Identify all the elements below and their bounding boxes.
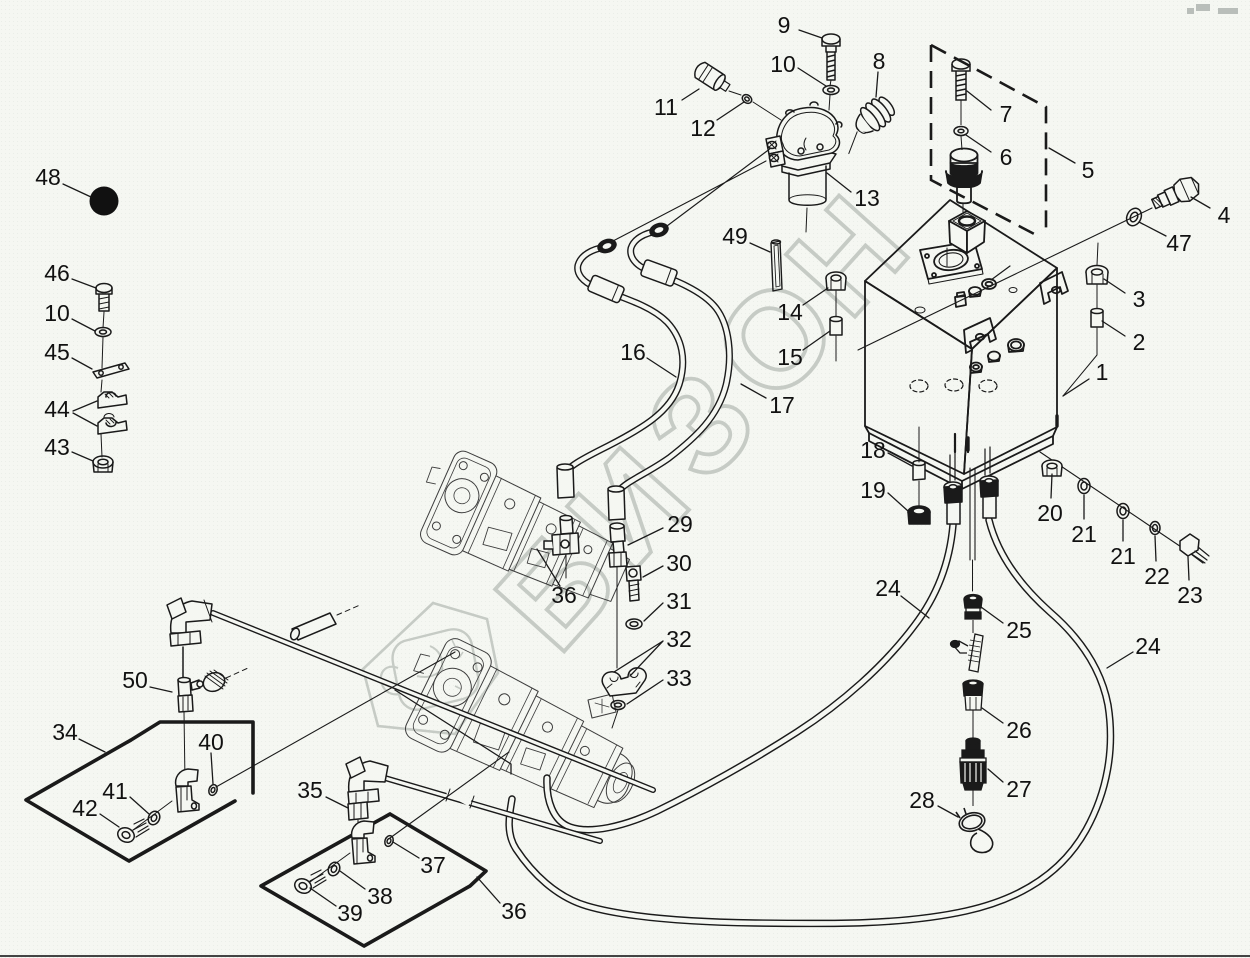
breather cap assembly (946, 149, 982, 213)
hose 17 ferrule (640, 259, 678, 287)
leader 25 (981, 607, 1003, 623)
svg-text:5: 5 (1082, 157, 1095, 183)
svg-text:9: 9 (778, 12, 791, 38)
leader 16 (647, 358, 676, 377)
ring 12 (741, 93, 754, 105)
svg-text:28: 28 (909, 787, 935, 813)
leader 31 (644, 603, 663, 621)
watermark group (363, 4, 1238, 734)
axis line 11-12 to filter (729, 91, 781, 120)
plug 48 (90, 187, 119, 216)
svg-text:37: 37 (420, 852, 446, 878)
leader 36a (537, 549, 560, 586)
svg-text:48: 48 (35, 164, 61, 190)
leader 18 (888, 453, 912, 466)
svg-text:20: 20 (1037, 500, 1063, 526)
leader 17 (741, 384, 766, 398)
sleeve pipe (289, 605, 360, 641)
svg-text:18: 18 (860, 437, 886, 463)
leader 24a (901, 596, 929, 618)
strip 45 (93, 363, 129, 378)
part 27 coupler (960, 738, 986, 806)
leader 42 (100, 814, 119, 827)
ring 33 (611, 701, 625, 710)
tank top small fittings (915, 266, 1017, 313)
tank bottom lip (865, 426, 1057, 481)
svg-text:31: 31 (666, 588, 692, 614)
leader 29 (628, 528, 663, 545)
knurled plug (200, 668, 248, 695)
fitting 50 (178, 647, 203, 782)
hose 17 (619, 231, 729, 491)
svg-text:11: 11 (654, 94, 678, 120)
leader 46 (72, 279, 96, 288)
filter left ports (766, 136, 785, 167)
pump port flange (588, 694, 616, 718)
nut 14 (826, 272, 846, 318)
tank front dashed holes (910, 379, 997, 392)
svg-text:23: 23 (1177, 582, 1203, 608)
leader 2 (1102, 321, 1125, 336)
svg-text:44: 44 (44, 396, 70, 422)
washer 41 (146, 809, 162, 826)
leader 32 (614, 641, 663, 676)
part 26 valve (951, 634, 984, 740)
box36 axis (390, 752, 509, 838)
box36 lower axis (310, 853, 350, 882)
nut 35 (348, 802, 368, 833)
tank foot tabs (968, 416, 1057, 450)
leader 13 (827, 173, 851, 192)
leader 27 (988, 769, 1003, 782)
sensor 11 (692, 60, 733, 95)
svg-text:16: 16 (620, 339, 646, 365)
nut 20 (1042, 460, 1062, 476)
washer 47 (1124, 206, 1144, 228)
svg-text:42: 42 (72, 795, 98, 821)
drain tube line under tank (970, 468, 975, 560)
tank filler flange plate (920, 241, 983, 284)
elbow bracket 34 (176, 769, 199, 812)
svg-text:25: 25 (1006, 617, 1032, 643)
leader 10a (72, 319, 95, 331)
hose 17 elbow ring nut (648, 221, 670, 239)
bolt 39 (292, 870, 326, 896)
leader 35 (326, 797, 348, 808)
leader 19 (888, 493, 908, 511)
leader 24b (1107, 652, 1133, 668)
leader 21c (1122, 520, 1124, 541)
svg-text:50: 50 (122, 667, 148, 693)
leader 22 (1155, 536, 1156, 561)
svg-text:49: 49 (722, 223, 748, 249)
leader 41 (130, 797, 149, 814)
svg-text:14: 14 (777, 299, 803, 325)
ring 37 (383, 834, 394, 847)
bolt 23 (1180, 534, 1209, 563)
bolt 7 (952, 59, 970, 125)
svg-text:17: 17 (769, 392, 795, 418)
hose 24 left (547, 525, 953, 830)
plug 8 (831, 92, 899, 154)
filter canister (789, 166, 826, 205)
leader 30 (643, 566, 663, 577)
svg-text:35: 35 (297, 777, 323, 803)
svg-text:36: 36 (501, 898, 527, 924)
watermark corner mark (1187, 4, 1238, 14)
tank foot (955, 434, 968, 452)
bolt 9 (822, 34, 840, 86)
svg-text:34: 34 (52, 719, 78, 745)
leader 37 (393, 842, 419, 858)
axis line 20-23 (1040, 452, 1205, 563)
svg-text:24: 24 (875, 575, 901, 601)
ring 40 (207, 783, 218, 796)
svg-text:10: 10 (44, 300, 70, 326)
nut 3 (1086, 243, 1108, 310)
washer 10b (823, 86, 839, 95)
leader 20 (1051, 474, 1052, 498)
leader 43 (72, 452, 93, 461)
leader 23 (1188, 557, 1189, 580)
svg-text:36: 36 (551, 582, 577, 608)
leader 21a (1083, 495, 1085, 519)
svg-text:45: 45 (44, 339, 70, 365)
svg-text:29: 29 (667, 511, 693, 537)
washer 10a (95, 328, 111, 337)
suction tube 1 (213, 613, 653, 790)
leader 1 (1063, 379, 1089, 396)
svg-text:40: 40 (198, 729, 224, 755)
svg-text:38: 38 (367, 883, 393, 909)
leader 50 (150, 687, 172, 692)
svg-text:4: 4 (1218, 202, 1231, 228)
leader 10b (798, 68, 826, 86)
axis line left column (101, 312, 104, 457)
box 36 (261, 814, 486, 946)
leader 12 (717, 102, 744, 120)
svg-text:47: 47 (1166, 230, 1192, 256)
svg-text:15: 15 (777, 344, 803, 370)
elbow bracket 36 (352, 821, 375, 864)
svg-text:41: 41 (102, 778, 128, 804)
svg-text:10: 10 (770, 51, 796, 77)
elbow 50 top (167, 598, 212, 646)
hose 24 right tank fitting (980, 476, 998, 518)
svg-text:3: 3 (1133, 286, 1146, 312)
tank bracket left (964, 318, 996, 353)
leader 47 (1139, 222, 1166, 236)
leader 45 (72, 358, 92, 369)
leader 5 (1049, 148, 1075, 163)
hose 16 ferrule (587, 275, 625, 304)
axis line for 4,47 (858, 208, 1152, 350)
hose 16 (563, 247, 683, 476)
box34 lower axis (133, 801, 172, 830)
leader 14 (803, 288, 828, 305)
hose 24 right (509, 520, 1110, 924)
fitting 4 (1149, 173, 1204, 215)
leader 15 (803, 331, 830, 350)
washer 21c (1117, 504, 1129, 519)
svg-text:43: 43 (44, 434, 70, 460)
tank bracket right (1040, 272, 1068, 304)
leader 7 (967, 91, 991, 110)
nut 19 (908, 506, 930, 524)
leader 36b (477, 877, 500, 903)
svg-text:12: 12 (690, 115, 716, 141)
bottom border line (0, 955, 1250, 957)
leader 26 (982, 708, 1003, 723)
svg-text:22: 22 (1144, 563, 1170, 589)
tank under-hose stubs (950, 447, 990, 482)
leader 3 (1104, 279, 1125, 293)
svg-text:30: 30 (666, 550, 692, 576)
leader 48 (63, 184, 91, 197)
svg-text:21: 21 (1110, 543, 1136, 569)
part 28 clamp (956, 808, 993, 853)
hose16 lower ferrule (557, 464, 574, 498)
leader 44 (73, 401, 97, 426)
leader 38 (340, 871, 365, 889)
leader 8 (876, 72, 878, 97)
pump assembly upper (403, 441, 643, 621)
leader 11 (682, 89, 699, 100)
svg-text:19: 19 (860, 477, 886, 503)
spacer 18 (913, 427, 925, 508)
hose 24 left tank fitting (944, 482, 962, 524)
leader 39 (310, 888, 336, 906)
svg-text:39: 39 (337, 900, 363, 926)
washer 38 (326, 860, 342, 877)
part 25 fitting (964, 595, 982, 634)
leader 33 (627, 680, 663, 704)
leader 34 (79, 739, 105, 752)
washer 21a (1078, 479, 1090, 494)
pin 49 (771, 240, 782, 291)
svg-text:21: 21 (1071, 521, 1097, 547)
clamp 44a (98, 392, 127, 408)
bolt 46 (96, 284, 112, 312)
pump assembly lower (386, 627, 657, 835)
clamp 44b (98, 418, 127, 434)
pump stud line (395, 690, 511, 774)
svg-text:33: 33 (666, 665, 692, 691)
svg-text:26: 26 (1006, 717, 1032, 743)
box 34 (26, 722, 253, 861)
tank filler neck cube (947, 211, 985, 266)
filter assembly 13 (766, 102, 842, 232)
bolt 30 (626, 566, 641, 601)
washer 31 (626, 619, 642, 629)
spacer 15 (830, 317, 842, 362)
svg-text:7: 7 (1000, 101, 1013, 127)
svg-text:13: 13 (854, 185, 880, 211)
watermark emblem bison (381, 629, 478, 709)
leader 28 (938, 806, 958, 817)
tee valve 36 (544, 516, 579, 579)
svg-text:2: 2 (1133, 329, 1146, 355)
svg-text:32: 32 (666, 626, 692, 652)
svg-text:8: 8 (873, 48, 886, 74)
box34 axis (216, 652, 455, 787)
svg-text:24: 24 (1135, 633, 1161, 659)
elbow 35 top (346, 757, 388, 804)
hose17 lower ferrule (608, 486, 625, 520)
hose 16 elbow ring nut (596, 237, 618, 255)
leader 4 (1191, 197, 1210, 208)
fitting stack 29 (609, 523, 627, 668)
leader 9 (799, 30, 822, 38)
watermark emblem hexagon (363, 603, 498, 734)
svg-text:27: 27 (1006, 776, 1032, 802)
suction tube 2 (385, 778, 600, 841)
leader 40 (211, 753, 213, 784)
leader 6 (966, 135, 991, 152)
nut 43 (93, 456, 113, 472)
svg-text:1: 1 (1096, 359, 1109, 385)
washer 22 (1150, 522, 1160, 535)
filter port axis lines (613, 148, 771, 241)
leader 49 (750, 243, 770, 252)
svg-text:46: 46 (44, 260, 70, 286)
tank T1 body part 1 (865, 200, 1057, 349)
tank front plugs (970, 339, 1024, 373)
washer 6 (954, 127, 968, 151)
spacer 2 (1063, 309, 1103, 397)
clamp halves 32 (602, 668, 646, 696)
bolt 42 (115, 819, 149, 845)
dashed box 5 (931, 45, 1046, 237)
svg-text:6: 6 (1000, 144, 1013, 170)
